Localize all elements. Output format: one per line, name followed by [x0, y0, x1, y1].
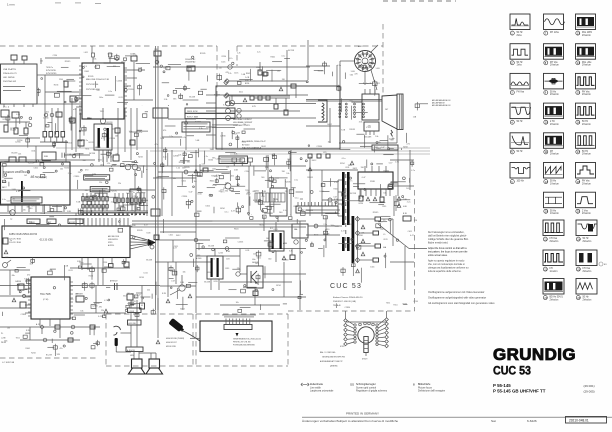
rail y262 zh: [390, 261, 414, 263]
oscillogram waveform 6 caption: [510, 180, 524, 184]
transformer winding lead d: [338, 215, 342, 217]
svg-text:68n: 68n: [12, 275, 15, 277]
svg-text:470: 470: [354, 74, 357, 76]
wire left edge y146: [0, 145, 55, 147]
driver transformer core bar a: [211, 258, 213, 277]
svg-text:TUNER/ZF 29504-001.56: TUNER/ZF 29504-001.56: [3, 172, 30, 174]
svg-text:B234: B234: [180, 308, 184, 310]
svg-text:FBB P: FBB P: [2, 182, 8, 184]
svg-text:22k: 22k: [94, 66, 97, 68]
svg-text:C2087: C2087: [256, 67, 261, 69]
psu vertical a: [275, 98, 277, 104]
svg-text:330: 330: [210, 149, 213, 151]
warning triangle z6a: [350, 161, 354, 165]
svg-text:0.1u: 0.1u: [2, 199, 6, 201]
svg-text:BC238: BC238: [204, 282, 210, 284]
transformer top lead: [102, 108, 104, 119]
svg-text:C611: C611: [345, 167, 349, 169]
svg-text:R2035: R2035: [307, 177, 313, 179]
LNB text line: [3, 85, 25, 88]
oscillogram waveform 17 caption: [576, 150, 591, 156]
svg-text:C611: C611: [68, 270, 72, 272]
vertical wire x232: [231, 95, 233, 101]
svg-text:B234: B234: [209, 160, 213, 162]
speaker bus: [139, 352, 156, 354]
psu pin stub 3: [206, 110, 216, 112]
rail y210 ze: [306, 209, 340, 211]
capacitor C2087: [258, 70, 262, 75]
oscillogram waveform 13: [576, 14, 596, 30]
svg-text:10k: 10k: [383, 192, 386, 194]
wire melodie left pin 2: [45, 91, 82, 93]
tda pin left 3: [25, 296, 31, 298]
signal bus wire y67: [153, 66, 310, 68]
svg-text:R234: R234: [222, 56, 227, 58]
svg-text:(29 001): (29 001): [584, 384, 595, 388]
elco plate a: [114, 283, 116, 290]
svg-text:B234: B234: [220, 208, 224, 210]
hp wire right: [116, 351, 131, 353]
driver transformer lead c: [218, 279, 220, 290]
svg-text:0.47: 0.47: [410, 235, 414, 237]
svg-text:68n: 68n: [252, 259, 255, 261]
svg-text:FABV/ RGB 29504-003.50: FABV/ RGB 29504-003.50: [9, 233, 38, 236]
resistor 4.7B: [203, 168, 208, 172]
vertical x213 zb: [212, 118, 214, 150]
svg-text:470: 470: [99, 306, 102, 308]
svg-text:22k: 22k: [219, 67, 222, 69]
driver transistor symbol: [251, 271, 257, 283]
CRT socket top pin circles: [359, 322, 375, 326]
socket right feed: [386, 311, 388, 318]
svg-text:BC238: BC238: [12, 152, 18, 154]
svg-text:BD Hz 50V/1: BD Hz 50V/1: [550, 297, 564, 299]
svg-text:3.3k: 3.3k: [289, 250, 293, 252]
transformer winding lead a: [338, 179, 342, 181]
svg-text:FH Vss: FH Vss: [517, 92, 525, 94]
oscillogram waveform 10: [544, 103, 564, 119]
psu wire f: [228, 95, 290, 97]
CRT funnel flare: [382, 95, 397, 129]
svg-text:R641: R641: [259, 225, 264, 227]
divider diamond 3: [355, 244, 359, 248]
oscillogram waveform 1: [510, 14, 530, 30]
svg-text:0.47: 0.47: [130, 211, 134, 213]
z8 part b: [148, 241, 152, 245]
svg-text:2Vss/cm: 2Vss/cm: [550, 241, 559, 243]
svg-text:Einbau-Chassis 29504-490.20: Einbau-Chassis 29504-490.20: [333, 297, 363, 299]
left rail y308: [0, 307, 31, 309]
svg-text:2 Vss: 2 Vss: [582, 210, 589, 212]
transformer lead right: [106, 150, 108, 162]
heater seg 1: [364, 340, 368, 342]
tda pin left 4: [25, 304, 31, 306]
EHT lightning bolt: [391, 130, 393, 137]
wire y146: [360, 145, 372, 147]
page top dashed edge: [383, 0, 456, 2]
comb solder pads: [82, 214, 145, 216]
svg-text:D612: D612: [176, 235, 181, 237]
svg-text:470: 470: [115, 153, 118, 155]
oscillogram waveform 19 caption: [544, 209, 559, 215]
wire into pin e-32: [76, 106, 82, 108]
rail y126 ze: [306, 125, 340, 127]
svg-text:R234: R234: [138, 157, 143, 159]
warning triangle y170: [194, 169, 198, 173]
audio link y333: [121, 332, 132, 334]
svg-text:0.47: 0.47: [381, 147, 385, 149]
junction left edge: [28, 123, 32, 127]
wire CRT bottom: [396, 130, 398, 144]
component mid b: [78, 140, 84, 146]
psu pin stub 6: [206, 134, 216, 136]
svg-text:T651: T651: [16, 337, 20, 339]
svg-text:SS: SS: [350, 383, 354, 387]
vertical wire x125: [124, 108, 126, 152]
warning triangle z2b: [243, 98, 247, 102]
line output transformer core bar 1: [342, 172, 345, 225]
divider warn 3: [361, 252, 365, 256]
svg-text:100n: 100n: [142, 239, 146, 241]
vertical x357 chain fix: [357, 216, 359, 263]
svg-text:FH Vss: FH Vss: [550, 238, 558, 240]
svg-text:29210-048.01: 29210-048.01: [569, 419, 589, 423]
CRT screen inner line: [398, 94, 400, 130]
chassis boundary dashed line top mid: [162, 45, 217, 47]
filter label text b: [85, 177, 105, 180]
pad above melodie pin 1: [92, 53, 95, 57]
AV board dashed box right: [287, 314, 289, 366]
psu label lower text 2: [221, 159, 243, 162]
legend box left: [153, 108, 168, 118]
svg-text:C611: C611: [163, 67, 167, 69]
rail y305 mid: [220, 304, 280, 306]
svg-text:BC238: BC238: [107, 122, 113, 124]
RF test point: [155, 60, 159, 64]
fabv top stub x76 up: [75, 213, 77, 216]
oscillogram waveform 16 caption: [576, 120, 591, 126]
component mid a: [70, 118, 75, 123]
tda pin bottom 1: [39, 319, 41, 326]
oscillogram waveform 25 caption: [576, 267, 591, 273]
svg-text:Regolatore di griglia schermo: Regolatore di griglia schermo: [356, 390, 388, 393]
svg-text:2Vss/cm: 2Vss/cm: [582, 213, 591, 215]
oscillogram waveform 22 caption: [543, 267, 557, 273]
svg-text:330: 330: [83, 160, 86, 162]
svg-text:B234: B234: [403, 146, 407, 148]
svg-text:CUC 53: CUC 53: [330, 283, 362, 290]
svg-text:2Vss/cm: 2Vss/cm: [550, 299, 559, 301]
svg-text:29504-016.73: 29504-016.73: [3, 73, 17, 75]
svg-text:10k: 10k: [60, 168, 63, 170]
focus wire right: [381, 218, 394, 220]
svg-text:330: 330: [27, 206, 30, 208]
svg-text:10k: 10k: [266, 238, 269, 240]
mic jack circle: [3, 263, 8, 268]
svg-text:10k: 10k: [375, 136, 378, 138]
svg-text:R234: R234: [341, 205, 346, 207]
svg-text:FH Vss: FH Vss: [583, 268, 591, 270]
svg-text:B234: B234: [33, 162, 37, 164]
transistor lead a: [181, 275, 183, 285]
component left edge b: [12, 112, 19, 118]
svg-text:Änderungen vorbehalten/Subject: Änderungen vorbehalten/Subject to altera…: [302, 419, 398, 423]
svg-text:L611: L611: [198, 194, 202, 196]
fabv bottom pin d: [125, 258, 127, 263]
vertical x222 zb: [221, 132, 223, 150]
z8 junction c: [225, 247, 229, 251]
svg-text:D612: D612: [102, 208, 107, 210]
svg-text:C611: C611: [408, 231, 412, 233]
divider resistor 1: [375, 217, 381, 221]
svg-text:BV 5000: BV 5000: [242, 144, 249, 146]
svg-text:0.1u: 0.1u: [282, 55, 286, 57]
oscillogram waveform 6: [510, 163, 531, 179]
warn pair right b: [397, 204, 401, 208]
vertical x278 down: [277, 216, 279, 222]
z8 part c: [253, 291, 258, 296]
coil above tuner b: [19, 157, 26, 162]
test point TP: [10, 210, 16, 216]
svg-text:0.1u: 0.1u: [342, 158, 346, 160]
svg-text:D612: D612: [206, 206, 211, 208]
adjust circle link: [128, 164, 135, 166]
spk brt box: [76, 296, 84, 302]
additional component texture: [9, 118, 303, 219]
svg-text:R234: R234: [54, 85, 59, 87]
oscillogram waveform 13 caption: [576, 31, 593, 37]
svg-text:1.2k: 1.2k: [237, 53, 241, 55]
svg-text:470: 470: [85, 169, 88, 171]
svg-text:22k: 22k: [29, 222, 32, 224]
svg-text:C2356: C2356: [238, 241, 244, 243]
wire melodie left pin 1: [45, 74, 82, 76]
psu bracket coil: [318, 100, 327, 122]
ground left b: [12, 298, 16, 302]
hdefl pin top 2: [371, 166, 373, 172]
oscillogram waveform 14 caption: [576, 61, 592, 67]
vertical wire x72: [71, 98, 73, 150]
vertical wire x45 lower: [44, 108, 46, 131]
oscillogram waveform 11: [544, 133, 564, 149]
FABV RGB module box: [2, 226, 130, 258]
svg-text:tutta la superficie dello sche: tutta la superficie dello schermo.: [428, 270, 462, 273]
tda pin bottom 3: [59, 319, 61, 326]
CRT heater rect: [364, 337, 368, 353]
svg-text:22k: 22k: [85, 190, 88, 192]
svg-text:C234: C234: [111, 165, 116, 167]
svg-text:C234: C234: [53, 55, 58, 57]
vertical x410 ze: [409, 150, 411, 190]
hdefl warn b: [373, 197, 377, 201]
svg-text:C611: C611: [110, 157, 114, 159]
svg-text:1k5: 1k5: [30, 264, 33, 266]
fabv bottom pin c: [111, 258, 113, 264]
wire from melodie right 3: [124, 85, 131, 87]
fabv bus y221: [132, 220, 306, 222]
ruler tick mark: [55, 2, 61, 5]
svg-text:1k5: 1k5: [24, 175, 27, 177]
warning triangle z6b: [308, 167, 312, 171]
tda pin left 1: [25, 280, 31, 282]
L531 pin row 3: [373, 131, 375, 135]
melodie IC pin ticks: [79, 66, 127, 116]
svg-text:P 55-145: P 55-145: [493, 383, 511, 388]
schutz text 1: [184, 123, 208, 126]
resistor row R121-R124: [43, 132, 65, 143]
svg-text:470: 470: [27, 274, 30, 276]
rail y213 extend: [70, 212, 148, 214]
svg-text:R234: R234: [348, 224, 353, 226]
divider diamond 1: [355, 217, 359, 221]
psu part c: [266, 96, 270, 100]
svg-text:1k5: 1k5: [127, 293, 130, 295]
vertical wire x337: [336, 65, 338, 90]
EW module box: [362, 94, 379, 120]
component x115: [115, 128, 120, 133]
svg-text:100n: 100n: [234, 72, 238, 74]
svg-text:0.47: 0.47: [333, 196, 337, 198]
oscillogram waveform 9: [544, 73, 564, 89]
AV label pointer: [190, 337, 200, 339]
svg-text:100n: 100n: [221, 61, 225, 63]
psu wire b: [254, 97, 290, 99]
svg-text:BC238: BC238: [86, 212, 92, 214]
svg-text:3.3k: 3.3k: [93, 59, 97, 61]
svg-text:560: 560: [350, 75, 353, 77]
kbr box: [403, 216, 411, 221]
AV pin labels row: [222, 314, 256, 317]
svg-text:TDA 7905: TDA 7905: [40, 293, 51, 296]
junction mid: [72, 154, 76, 158]
circled A node 2: [226, 109, 231, 114]
chassis boundary dashed bottom: [288, 310, 415, 312]
z6 part b: [317, 154, 321, 158]
vertical wire left x8: [7, 117, 9, 125]
svg-text:MELODIE 29504-107.38: MELODIE 29504-107.38: [86, 79, 110, 81]
headphone symbol: [114, 326, 121, 335]
ruler tick mark 3: [95, 2, 101, 5]
module pin stub 2: [369, 89, 371, 94]
svg-text:L.5: L.5: [383, 234, 385, 236]
schutz label box: [182, 122, 210, 132]
svg-text:1k5: 1k5: [112, 128, 115, 130]
svg-text:Oszillogramme aufgefotografed: Oszillogramme aufgefotografed with video…: [428, 297, 486, 300]
svg-text:560: 560: [268, 259, 271, 261]
mid band texture: [7, 102, 410, 214]
coil above tuner a: [9, 157, 16, 162]
transformer winding lead b: [338, 191, 342, 193]
speicher label text: [13, 198, 40, 201]
svg-text:3.3k: 3.3k: [199, 128, 203, 130]
svg-text:470: 470: [163, 130, 166, 132]
svg-text:1 mm: 1 mm: [7, 3, 15, 7]
rail y232 zg: [160, 231, 196, 233]
svg-text:22k: 22k: [99, 182, 102, 184]
svg-text:A 2040: A 2040: [196, 257, 201, 260]
vertical x41 zc: [40, 58, 42, 64]
AV top labels: [357, 305, 359, 306]
signal bus wire y95: [229, 94, 308, 96]
oscillogram waveform 1 caption: [510, 31, 523, 37]
oscillogram waveform 10 caption: [544, 120, 559, 126]
adjust circle B: [125, 164, 131, 170]
svg-text:BC238: BC238: [195, 121, 201, 123]
svg-text:29417B4-102: 29417B4-102: [3, 81, 17, 83]
svg-text:1Vss/cm: 1Vss/cm: [550, 213, 559, 215]
component left edge a: [1, 110, 9, 117]
long vertical x287: [286, 50, 288, 95]
svg-text:R2035: R2035: [200, 53, 206, 55]
connector strip mid: [296, 206, 338, 213]
rail y268 zf: [70, 267, 130, 269]
svg-text:R2035: R2035: [285, 182, 291, 184]
oscillogram waveform 23: [543, 279, 564, 295]
long vertical x147: [146, 150, 148, 216]
line output transformer core bar 5: [352, 216, 355, 263]
svg-text:M 329: M 329: [340, 346, 345, 348]
oscillogram waveform 11 caption: [544, 150, 559, 156]
svg-text:L611: L611: [211, 259, 215, 261]
z9 junction a: [314, 224, 318, 228]
divider wire 1: [360, 218, 375, 220]
z6 vertical x310: [309, 158, 311, 216]
svg-text:2Vss/cm: 2Vss/cm: [550, 94, 559, 96]
socket top rail: [345, 321, 387, 323]
vertical x173 zg: [172, 240, 174, 262]
rail y172: [158, 171, 230, 173]
psu label box lower: [219, 156, 247, 164]
wire x111 to tuner: [110, 150, 112, 162]
AV board dashed box left: [195, 314, 197, 366]
cap mark top b: [128, 304, 134, 306]
rail y58 zc: [45, 57, 80, 59]
focus vertical x393: [392, 219, 394, 246]
svg-text:BC238: BC238: [288, 50, 294, 52]
audio vert x134 down: [133, 352, 135, 360]
vertical wire left x26: [25, 122, 27, 128]
oscillogram waveform 12: [544, 163, 564, 179]
svg-text:R2035: R2035: [373, 212, 379, 214]
psu part a: [250, 96, 254, 100]
bandfilter pin comb 2: [114, 193, 146, 211]
svg-text:C2830: C2830: [74, 176, 80, 178]
svg-text:10k: 10k: [183, 271, 186, 273]
svg-text:a b c d: a b c d: [3, 107, 9, 109]
transformer top junction: [100, 118, 105, 123]
svg-text:0.47: 0.47: [7, 201, 11, 203]
svg-text:BC238: BC238: [89, 142, 95, 144]
oscillogram waveform 25: [576, 250, 597, 266]
automatik label box: [90, 187, 110, 192]
rail y204 za: [0, 203, 40, 205]
rail y235 zh: [306, 234, 340, 236]
divider warn 2: [361, 239, 365, 243]
resistor R108: [64, 81, 68, 87]
svg-text:0.1u: 0.1u: [295, 198, 299, 200]
bl vert b: [59, 329, 61, 338]
svg-text:LED DRIVE: LED DRIVE: [3, 77, 15, 79]
bridge transformer frame: [269, 231, 284, 251]
svg-text:GERÄTEN ANSCH. A. 29001-004.2: GERÄTEN ANSCH. A. 29001-004.20: [233, 338, 261, 341]
svg-text:330: 330: [225, 191, 228, 193]
wire tuner bottom rail: [0, 212, 70, 214]
psu label lower text 3: [221, 161, 246, 164]
filter label text a: [85, 175, 107, 178]
hp wire down: [115, 346, 117, 352]
svg-text:BC238: BC238: [208, 246, 214, 248]
module pin stub 3: [374, 89, 376, 94]
